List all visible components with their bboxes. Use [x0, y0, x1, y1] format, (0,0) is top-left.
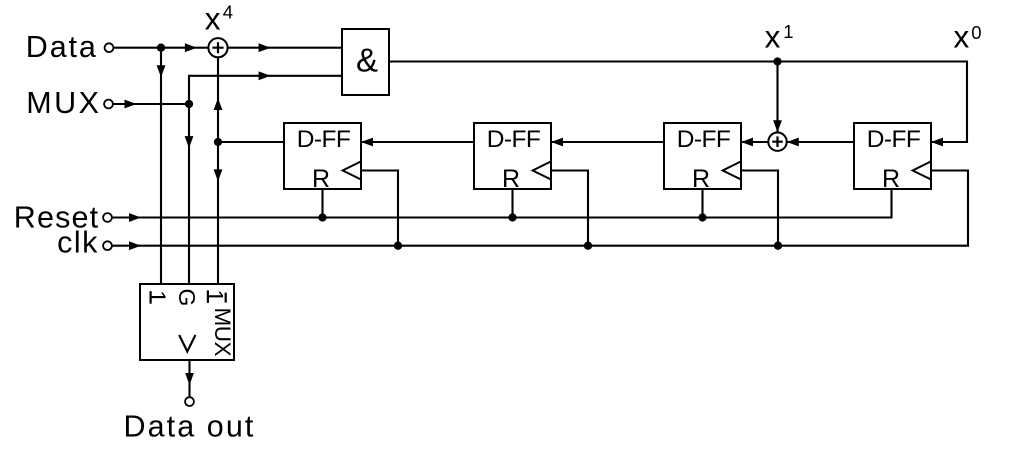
svg-text:Data out: Data out	[124, 409, 256, 443]
svg-text:MUX: MUX	[210, 308, 235, 357]
svg-text:&: &	[356, 41, 378, 78]
svg-text:4: 4	[223, 1, 233, 22]
svg-text:R: R	[882, 165, 900, 193]
svg-text:D-FF: D-FF	[867, 126, 920, 153]
svg-text:1: 1	[783, 21, 793, 42]
svg-text:R: R	[312, 165, 330, 193]
svg-text:D-FF: D-FF	[487, 126, 540, 153]
svg-text:x: x	[954, 18, 970, 54]
svg-text:x: x	[765, 19, 781, 55]
svg-text:Data: Data	[26, 30, 98, 64]
svg-text:G: G	[174, 289, 200, 307]
svg-text:1: 1	[145, 290, 171, 303]
svg-text:D-FF: D-FF	[297, 126, 350, 153]
svg-text:R: R	[502, 165, 520, 193]
svg-text:clk: clk	[57, 226, 99, 260]
svg-text:1: 1	[202, 290, 228, 303]
svg-text:x: x	[205, 0, 221, 36]
svg-text:D-FF: D-FF	[677, 126, 730, 153]
svg-text:MUX: MUX	[26, 86, 101, 120]
svg-text:R: R	[692, 165, 710, 193]
svg-text:0: 0	[971, 22, 981, 43]
